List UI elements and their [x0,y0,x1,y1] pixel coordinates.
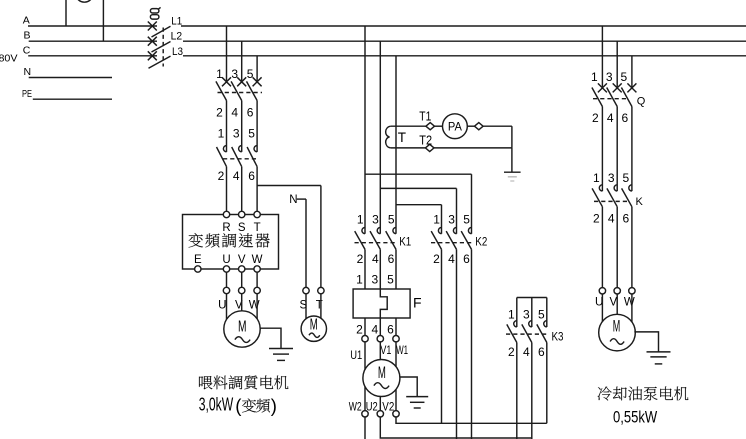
svg-text:A: A [23,15,30,27]
svg-text:380V: 380V [0,53,18,65]
svg-text:2: 2 [508,345,515,359]
svg-text:6: 6 [387,322,394,336]
svg-text:5: 5 [387,273,394,287]
svg-text:3: 3 [371,273,378,287]
svg-text:V: V [238,254,246,266]
svg-text:1: 1 [591,70,598,84]
svg-text:T: T [398,130,406,145]
svg-text:6: 6 [623,212,630,226]
svg-text:N: N [24,66,32,78]
svg-text:3: 3 [233,126,240,140]
svg-text:V2: V2 [382,399,394,413]
svg-text:V1: V1 [380,343,391,357]
svg-text:4: 4 [233,169,240,183]
svg-text:4: 4 [371,322,378,336]
svg-text:U1: U1 [350,348,362,362]
svg-text:F: F [413,295,422,311]
svg-text:3: 3 [372,213,379,227]
svg-text:5: 5 [538,308,545,322]
svg-text:4: 4 [448,252,455,266]
svg-text:5: 5 [463,213,470,227]
svg-text:(: ( [235,395,242,416]
svg-text:2: 2 [593,212,600,226]
svg-text:M: M [613,317,621,335]
svg-text:2: 2 [216,106,223,120]
svg-text:PA: PA [448,122,462,134]
svg-text:3: 3 [608,171,615,185]
svg-text:C: C [23,44,31,56]
svg-text:U: U [222,254,230,266]
svg-text:K2: K2 [475,237,487,249]
svg-text:U: U [218,299,226,311]
svg-text:V: V [609,297,617,309]
svg-text:3,0kW: 3,0kW [199,394,233,414]
svg-text:5: 5 [388,213,395,227]
svg-text:4: 4 [607,111,614,125]
svg-text:6: 6 [538,345,545,359]
svg-text:1: 1 [216,67,223,81]
svg-text:L2: L2 [171,31,183,43]
svg-text:5: 5 [621,70,628,84]
svg-text:W: W [252,254,263,266]
svg-text:4: 4 [231,106,238,120]
svg-text:1: 1 [593,171,600,185]
svg-text:W2: W2 [349,399,362,413]
svg-text:3: 3 [231,67,238,81]
svg-text:4: 4 [608,212,615,226]
svg-text:K: K [636,196,644,208]
svg-text:M: M [378,364,386,382]
svg-text:1: 1 [357,213,364,227]
svg-text:2: 2 [357,252,364,266]
svg-text:4: 4 [372,252,379,266]
svg-text:M: M [310,317,318,334]
svg-text:3: 3 [448,213,455,227]
svg-text:2: 2 [592,111,599,125]
svg-text:2: 2 [433,252,440,266]
svg-text:1: 1 [433,213,440,227]
svg-text:K3: K3 [552,332,564,344]
svg-text:3: 3 [523,308,530,322]
svg-text:T1: T1 [419,108,431,123]
svg-text:6: 6 [247,106,254,120]
svg-text:M: M [238,319,247,336]
svg-text:6: 6 [248,169,255,183]
svg-text:2: 2 [356,322,363,336]
svg-text:1: 1 [508,308,515,322]
svg-text:5: 5 [623,171,630,185]
svg-text:B: B [24,30,31,42]
svg-text:3: 3 [606,70,613,84]
svg-text:T: T [254,222,261,234]
svg-text:T: T [316,299,323,311]
svg-text:PE: PE [22,88,32,100]
svg-text:K1: K1 [399,237,411,249]
svg-text:W: W [249,299,260,311]
svg-text:L3: L3 [172,46,183,58]
svg-text:W: W [624,297,635,309]
svg-text:2: 2 [218,169,225,183]
svg-text:1: 1 [356,273,363,287]
svg-text:Q: Q [637,95,646,107]
svg-text:N: N [289,194,297,206]
svg-text:L1: L1 [171,15,182,27]
svg-text:6: 6 [463,252,470,266]
svg-text:E: E [194,254,202,266]
svg-text:W1: W1 [396,343,408,357]
svg-text:5: 5 [248,126,255,140]
svg-text:4: 4 [523,345,530,359]
svg-text:T2: T2 [419,132,432,147]
svg-text:S: S [238,222,246,234]
svg-text:6: 6 [622,111,629,125]
svg-text:0,55kW: 0,55kW [613,407,657,426]
svg-text:R: R [222,222,230,234]
svg-text:6: 6 [388,252,395,266]
svg-text:): ) [271,395,277,416]
svg-text:5: 5 [247,67,254,81]
svg-text:1: 1 [218,126,225,140]
